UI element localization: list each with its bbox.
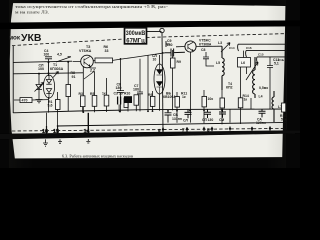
svg-text:R3: R3 (79, 92, 83, 96)
resistor R7 (92, 96, 97, 107)
scanner black strip bottom (0, 157, 300, 168)
resistor R15 corner (282, 103, 286, 112)
svg-text:120пн: 120пн (256, 121, 266, 125)
jack socket symbol (166, 41, 170, 47)
capacitor C8 (203, 52, 209, 64)
T1 internal electrodes (46, 72, 58, 100)
wire R12b (176, 92, 178, 123)
wire rail D lower (57, 122, 287, 126)
wire rail A (13, 61, 72, 62)
svg-text:мок: мок (9, 35, 21, 42)
wire VD3 top (148, 55, 160, 111)
dual varicap VD3 envelope (154, 64, 165, 94)
svg-text:131пн: 131пн (172, 117, 182, 121)
svg-text:6.3. Работа антенных входных к: 6.3. Работа антенных входных каскадов (62, 155, 133, 159)
wire R12 (172, 50, 174, 110)
svg-text:4,5: 4,5 (56, 52, 62, 56)
svg-text:L4: L4 (259, 95, 263, 99)
svg-text:С8: С8 (201, 48, 205, 52)
capacitor C9 electrolytic (124, 96, 132, 103)
transistor T3 circle (185, 41, 196, 52)
capacitor CL (185, 110, 192, 119)
svg-text:100: 100 (38, 67, 44, 71)
svg-text:L6: L6 (241, 61, 245, 65)
svg-text:С1Б: С1Б (278, 58, 285, 62)
wire from level box to antenna input (147, 31, 162, 33)
dashed bottom border of block (12, 128, 287, 131)
resistor R9a (150, 96, 155, 106)
wire T3 connections (176, 46, 222, 122)
ground varicap (36, 96, 43, 103)
ground below band at pin15 (58, 139, 62, 143)
resistor R13 (202, 96, 207, 107)
capacitor C1 (118, 97, 121, 105)
svg-text:1к: 1к (102, 92, 106, 96)
svg-text:R5: R5 (90, 92, 94, 96)
T2 internal (84, 57, 90, 67)
varicap VD1 (35, 74, 44, 96)
capacitor C4 (45, 57, 52, 63)
pin 3 (251, 127, 253, 131)
inductor L7 (272, 91, 274, 122)
ground below band at pin16 (43, 139, 48, 146)
svg-text:КТ368А: КТ368А (199, 42, 212, 46)
node junction at rail B (48, 72, 50, 74)
svg-text:L5: L5 (216, 61, 220, 65)
gain annotation diagonal (84, 72, 94, 80)
svg-text:91: 91 (72, 75, 76, 79)
svg-text:180: 180 (133, 88, 139, 92)
svg-text:СЛ: СЛ (183, 118, 188, 122)
resistor R2 470 (20, 98, 32, 103)
capacitor C17 (204, 109, 211, 118)
scanner black bar right (282, 0, 300, 168)
svg-text:2,2: 2,2 (89, 69, 95, 73)
svg-text:С14: С14 (229, 46, 235, 50)
capacitor C12 (267, 57, 273, 80)
wire R2 (14, 99, 49, 101)
resistor R15 (220, 98, 225, 108)
resistor R6 (95, 58, 113, 63)
wire right resistors (222, 80, 270, 124)
svg-text:КП303А: КП303А (50, 67, 64, 71)
svg-text:R9: R9 (177, 60, 181, 64)
resistor R8 (66, 85, 71, 97)
antenna input jack (160, 28, 164, 32)
svg-text:5,1: 5,1 (274, 62, 279, 66)
wire R1 verticals (47, 92, 58, 133)
wire R13 (203, 90, 205, 123)
svg-text:L3: L3 (218, 41, 222, 45)
svg-text:130: 130 (208, 118, 214, 122)
resistor R5 (80, 96, 85, 107)
wire C4 junction vertical (48, 62, 50, 76)
wire T2 collector to R6 and onward (93, 53, 165, 61)
pin 9 (162, 127, 164, 132)
svg-text:1к: 1к (244, 98, 248, 102)
svg-text:С15: С15 (258, 52, 264, 56)
tuning arrow right (246, 62, 258, 80)
wire T2 emitter down (83, 66, 96, 113)
svg-text:С3 50: С3 50 (114, 91, 123, 95)
wire antenna down (162, 33, 163, 130)
wire T2 base left (73, 61, 81, 63)
page background (0, 0, 300, 168)
svg-text:СМ: СМ (219, 118, 224, 122)
inductor L5 (222, 46, 224, 90)
svg-text:10к: 10к (208, 97, 214, 101)
VD3 internal diodes (157, 64, 163, 94)
resistor R1 (56, 100, 61, 110)
svg-text:КП2: КП2 (226, 86, 233, 90)
svg-text:R10: R10 (124, 92, 130, 96)
node varicap junction (38, 73, 40, 75)
wire left border vertical (12, 46, 14, 113)
pin 4 (229, 127, 231, 131)
tuning arrow L3 (221, 43, 230, 52)
svg-text:R9: R9 (148, 93, 152, 97)
svg-text:VТ5ЖА: VТ5ЖА (79, 49, 92, 53)
resistor R16 (238, 98, 243, 108)
wire right border vertical (285, 34, 287, 130)
thick black fold band (0, 20, 300, 29)
gutter shading left (9, 0, 35, 168)
pin 1 (269, 126, 271, 130)
wire right of C8 (206, 64, 214, 66)
svg-text:С16: С16 (246, 46, 252, 50)
resistor R12b (175, 97, 180, 108)
svg-text:10: 10 (153, 58, 157, 62)
svg-text:67МГц: 67МГц (126, 39, 145, 45)
shield box line 2 (246, 51, 287, 57)
scanner black bar left (0, 0, 16, 168)
capacitor C5 (165, 111, 172, 123)
svg-text:300мкВ: 300мкВ (126, 31, 146, 37)
capacitor CM (219, 109, 226, 118)
wire rail B (13, 73, 83, 74)
wire 230 vertical (229, 109, 231, 122)
pin 6 (203, 127, 205, 131)
solid bottom edge band of figure (0, 130, 300, 139)
svg-text:1к: 1к (182, 95, 186, 99)
transistor T1 envelope (43, 75, 54, 98)
node junction at rail A (48, 61, 50, 63)
resistor R9 (104, 95, 109, 106)
svg-text:0,5мк: 0,5мк (259, 86, 268, 90)
capacitor C7 (137, 59, 143, 112)
svg-text:51к: 51к (281, 118, 287, 122)
wire L6 stubs (241, 51, 247, 98)
inductor L6 box (238, 58, 251, 68)
inductor L4 (253, 57, 255, 98)
scan speckle (0, 0, 1, 1)
ground below band at pin14 (86, 139, 90, 143)
wire R9a (152, 91, 154, 111)
T3 internal (188, 42, 193, 51)
svg-text:180: 180 (167, 43, 173, 47)
wire rail C supply (13, 109, 287, 113)
svg-text:УКВ: УКВ (21, 32, 42, 44)
resistor R10 (124, 98, 128, 108)
node dots on rails (82, 111, 84, 113)
gutter shading right (266, 0, 286, 168)
transistor T2 circle (81, 55, 94, 68)
resistor R10b (134, 95, 139, 105)
pin 7 (186, 127, 188, 131)
svg-text:КВ109А: КВ109А (163, 95, 176, 99)
shield box line 1 (238, 44, 287, 51)
svg-text:м на плате ЛЗ.: м на плате ЛЗ. (15, 10, 49, 15)
svg-text:470: 470 (22, 99, 28, 103)
wires bottom mid verticals (83, 72, 137, 113)
scanner black strip top (0, 0, 300, 6)
capacitor C18 (259, 109, 266, 117)
dashed top border of block (12, 34, 287, 46)
signal level box 300мкВ 67МГц (125, 28, 147, 45)
wire R8 (67, 62, 69, 112)
capacitor C9 inline (165, 49, 185, 57)
shield box line 3 (257, 57, 287, 63)
svg-text:100: 100 (44, 53, 50, 57)
capacitor C6 (117, 59, 124, 111)
svg-text:33: 33 (105, 49, 109, 53)
pin 5 (211, 127, 213, 131)
resistor R12 (171, 58, 176, 68)
